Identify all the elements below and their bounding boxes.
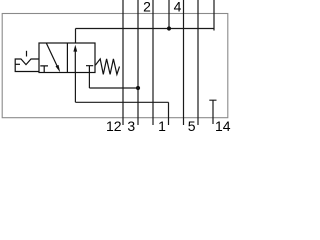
valve V1 left position flow diagonal — [46, 43, 57, 67]
wire net 1 vertical W3 — [152, 0, 154, 125]
valve V1 right position blocked port T — [86, 66, 93, 73]
valve V1 left position blocked port T — [40, 66, 48, 73]
wire net 5 vertical W5 — [197, 0, 199, 125]
svg-text:2: 2 — [143, 0, 151, 15]
manual override stem — [26, 51, 28, 57]
electrical connection arm — [15, 63, 20, 65]
svg-text:3: 3 — [127, 118, 135, 134]
blocked port 14 T symbol — [209, 100, 216, 124]
wire net 3 vertical W2 — [137, 0, 139, 125]
wire valve top port riser — [75, 29, 77, 44]
svg-text:14: 14 — [215, 118, 231, 134]
solenoid actuator box with manual override — [15, 59, 39, 72]
wire net 2 vertical W1 — [122, 0, 124, 125]
wire horizontal H2 valve to W6 — [75, 101, 168, 103]
wire valve bottom right port riser — [88, 73, 90, 89]
return spring — [95, 59, 119, 75]
valve V1 body divider — [66, 43, 68, 73]
wire horizontal H1 valve to W2 — [89, 87, 138, 89]
svg-text:1: 1 — [158, 118, 166, 134]
valve V1 body — [39, 43, 95, 73]
wire net upper stub W6a — [168, 0, 170, 29]
valve V1 right flow arrowhead — [73, 45, 77, 52]
wire net 14 upper stub W7a — [213, 0, 215, 31]
wire horizontal H3 valve output to node 14 — [76, 28, 215, 30]
wire valve bottom left port riser — [74, 73, 76, 103]
wire net 4 vertical W4 — [183, 0, 185, 125]
svg-text:5: 5 — [188, 118, 196, 134]
valve V1 right position flow line — [74, 51, 76, 73]
wire net lower segment W6b — [168, 102, 170, 125]
junction dot node B — [136, 86, 140, 90]
svg-text:4: 4 — [174, 0, 182, 15]
svg-text:12: 12 — [106, 118, 122, 134]
junction dot node A — [167, 26, 171, 30]
valve V1 left diagonal arrowhead — [56, 65, 61, 73]
